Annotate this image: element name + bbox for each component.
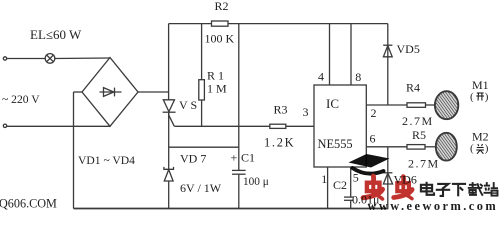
svg-text:M1: M1 xyxy=(472,78,489,92)
wire VD7 top to C1 line xyxy=(169,146,239,148)
wire pin5 to C2 xyxy=(350,167,352,197)
svg-text:8: 8 xyxy=(355,70,361,84)
bridge internal diode xyxy=(100,88,122,97)
terminal lower AC xyxy=(3,124,6,127)
resistor R2 xyxy=(212,21,229,26)
svg-text:6V / 1W: 6V / 1W xyxy=(180,181,222,195)
svg-text:NE555: NE555 xyxy=(318,137,353,151)
bridge rectifier VD1~VD4 diamond xyxy=(82,58,138,127)
wire R4 to M1 xyxy=(426,104,436,106)
watermark group xyxy=(349,154,499,213)
svg-text:C1: C1 xyxy=(241,151,255,165)
svg-text:V S: V S xyxy=(179,98,197,112)
wire VS cathode jog to mid node xyxy=(169,113,175,127)
wire VD7 to ground rail xyxy=(168,181,170,209)
resistor R1 xyxy=(199,80,205,100)
watermark text zai xyxy=(468,182,483,196)
capacitor C2 xyxy=(344,197,354,200)
thyristor VS xyxy=(163,100,176,112)
svg-text:VD5: VD5 xyxy=(397,42,420,56)
svg-text:Q606.COM: Q606.COM xyxy=(0,196,57,210)
wire lower AC to bridge bottom vertex xyxy=(7,125,110,127)
wire bridge left vertex to DC- line xyxy=(74,91,83,93)
svg-text:100 μ: 100 μ xyxy=(243,176,269,188)
svg-text:R4: R4 xyxy=(406,81,420,95)
lamp EL xyxy=(45,54,55,64)
watermark text zi xyxy=(436,184,450,196)
wire lamp to bridge top xyxy=(55,57,110,60)
svg-text:6: 6 xyxy=(370,131,376,145)
wire pin2 row xyxy=(366,104,407,106)
svg-text:C2: C2 xyxy=(333,178,347,192)
svg-text:1: 1 xyxy=(321,172,327,186)
node M1 paren labels (kai) xyxy=(470,91,489,103)
node M2 paren labels (guan) xyxy=(470,143,489,155)
wire mid node horizontal xyxy=(175,125,315,127)
watermark text dian xyxy=(421,182,434,195)
diode VD6 xyxy=(383,173,392,184)
zener VD7 xyxy=(164,167,174,181)
wire VD5 branch xyxy=(387,24,389,105)
terminal upper AC xyxy=(3,57,6,60)
svg-text:4: 4 xyxy=(318,70,324,84)
wire C1 to ground rail xyxy=(238,174,240,208)
wire pin8 xyxy=(350,24,352,85)
watermark cap brim xyxy=(353,168,384,174)
wire VD6 branch xyxy=(387,147,389,209)
svg-text:2.7M: 2.7M xyxy=(402,114,434,128)
svg-text:+: + xyxy=(231,151,238,165)
touch plate M1 xyxy=(435,91,458,119)
wire DC- vertical xyxy=(73,92,75,209)
svg-text:100 K: 100 K xyxy=(205,31,235,45)
svg-text:(: ( xyxy=(470,91,474,103)
svg-text:): ) xyxy=(485,143,489,155)
op IC NE555 box xyxy=(314,85,366,167)
wire upper AC to lamp xyxy=(7,58,45,60)
wire C1/VCC vertical xyxy=(238,24,240,171)
svg-text:2: 2 xyxy=(371,106,377,120)
svg-text:VD1 ~ VD4: VD1 ~ VD4 xyxy=(78,154,135,167)
watermark text zhan xyxy=(484,182,499,196)
wire pin6 row xyxy=(366,146,407,148)
svg-text:R2: R2 xyxy=(215,0,229,13)
svg-text:EL≤60 W: EL≤60 W xyxy=(30,27,82,42)
resistor R5 xyxy=(407,145,425,150)
diode VD5 xyxy=(383,45,392,57)
wire pin1 to ground xyxy=(327,167,329,209)
watermark cap top xyxy=(349,154,390,168)
svg-text:VD 7: VD 7 xyxy=(180,152,206,166)
resistor R4 xyxy=(407,103,426,108)
svg-text:R 1: R 1 xyxy=(207,69,224,83)
top rail xyxy=(169,23,212,25)
wire R1 branch upper xyxy=(201,24,203,80)
wire VS vertical from top rail xyxy=(168,24,170,100)
svg-text:2.7M: 2.7M xyxy=(408,157,440,171)
svg-text:(: ( xyxy=(470,143,474,155)
wire R1 lower xyxy=(201,100,203,126)
wire R5 to M2 xyxy=(425,146,436,148)
svg-text:R3: R3 xyxy=(274,103,288,117)
watermark bug 1 xyxy=(363,176,382,199)
touch plate M2 xyxy=(436,133,457,161)
svg-text:www.eeworm.com: www.eeworm.com xyxy=(368,199,499,212)
svg-text:R5: R5 xyxy=(412,128,426,142)
svg-text:): ) xyxy=(485,91,489,103)
wire C2 to ground xyxy=(350,200,352,208)
capacitor C1 xyxy=(232,170,246,174)
wire VD7 branch vertical xyxy=(168,113,170,169)
svg-text:1.2K: 1.2K xyxy=(264,136,295,150)
resistor R3 xyxy=(270,124,286,128)
svg-text:~ 220 V: ~ 220 V xyxy=(2,93,40,106)
ground rail bottom xyxy=(74,208,389,210)
svg-text:1 M: 1 M xyxy=(207,82,227,96)
wire bridge right vertex to VS line xyxy=(138,91,169,93)
watermark bug 2 xyxy=(394,177,412,199)
wire pin4 xyxy=(329,24,331,85)
svg-text:IC: IC xyxy=(326,96,339,111)
watermark text xia xyxy=(452,184,466,196)
svg-text:3: 3 xyxy=(303,105,309,119)
svg-text:M2: M2 xyxy=(472,130,489,144)
